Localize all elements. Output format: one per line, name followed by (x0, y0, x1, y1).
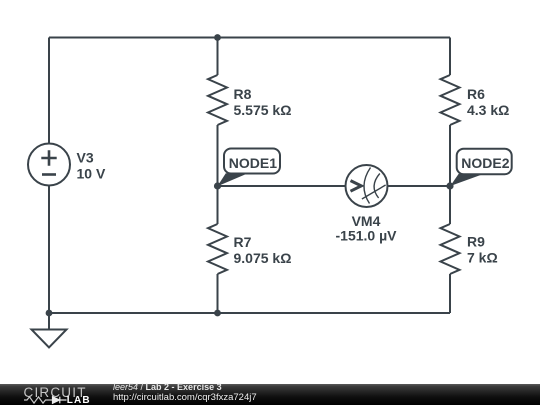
svg-text:4.3 kΩ: 4.3 kΩ (467, 102, 509, 118)
footer bar (0, 384, 540, 405)
svg-text:10 V: 10 V (77, 166, 106, 182)
svg-text:http://circuitlab.com/cqr3fxza: http://circuitlab.com/cqr3fxza724j7 (113, 392, 257, 403)
svg-text:NODE1: NODE1 (229, 155, 277, 171)
svg-text:R8: R8 (234, 86, 252, 102)
node NODE1 flag (217, 149, 280, 187)
wire top rail (49, 37, 450, 39)
svg-text:7 kΩ: 7 kΩ (467, 250, 498, 266)
svg-text:NODE2: NODE2 (461, 155, 509, 171)
svg-text:R7: R7 (234, 234, 252, 250)
svg-text:R9: R9 (467, 234, 485, 250)
ground (32, 313, 67, 348)
svg-text:-151.0 µV: -151.0 µV (336, 228, 398, 244)
junction dot bottom rail / R7 (214, 310, 221, 317)
junction dot ground (46, 310, 53, 317)
label R7 9.075 kOhm (234, 234, 292, 266)
wire right rail top stub (449, 38, 451, 76)
label R8 5.575 kOhm (234, 86, 292, 118)
wire V3 bottom to bottom rail (48, 186, 50, 314)
voltage source V3 (28, 144, 70, 186)
junction dot top rail / R8 (214, 34, 221, 41)
wire R9 bottom to bottom rail (449, 274, 451, 313)
wire middle branch top stub (217, 38, 219, 76)
wire NODE2 to R9 top (449, 186, 451, 224)
svg-text:R6: R6 (467, 86, 485, 102)
wire R8 bottom to NODE1 (217, 125, 219, 186)
svg-text:VM4: VM4 (352, 213, 381, 229)
junction dot NODE2 (446, 182, 453, 189)
junction dot NODE1 (214, 182, 221, 189)
wire left rail top (V3 top to top-left corner) (48, 38, 50, 144)
svg-text:5.575 kΩ: 5.575 kΩ (234, 102, 292, 118)
node NODE2 flag (450, 149, 511, 186)
wire voltmeter right terminal to NODE2 (388, 185, 451, 187)
resistor R9 (441, 224, 460, 274)
resistor R8 (208, 75, 227, 125)
wire NODE1 to R7 top (217, 186, 219, 224)
wire bottom rail (49, 312, 450, 314)
wire R6 bottom to NODE2 (449, 125, 451, 186)
label V3 10 V (77, 150, 106, 182)
label R6 4.3 kOhm (467, 86, 509, 118)
svg-text:9.075 kΩ: 9.075 kΩ (234, 250, 292, 266)
svg-text:LAB: LAB (67, 395, 91, 405)
voltmeter VM4 (346, 165, 388, 207)
resistor R7 (208, 224, 227, 274)
CircuitLab logo resistor squiggle and diode (24, 397, 67, 404)
svg-text:V3: V3 (77, 150, 94, 166)
label R9 7 kOhm (467, 234, 498, 266)
wire R7 bottom to bottom rail (217, 274, 219, 313)
resistor R6 (441, 75, 460, 125)
label VM4 -151.0 uV (336, 213, 398, 244)
wire NODE1 to voltmeter left terminal (218, 185, 346, 187)
svg-text:leer54 / Lab 2 - Exercise 3: leer54 / Lab 2 - Exercise 3 (113, 382, 222, 392)
